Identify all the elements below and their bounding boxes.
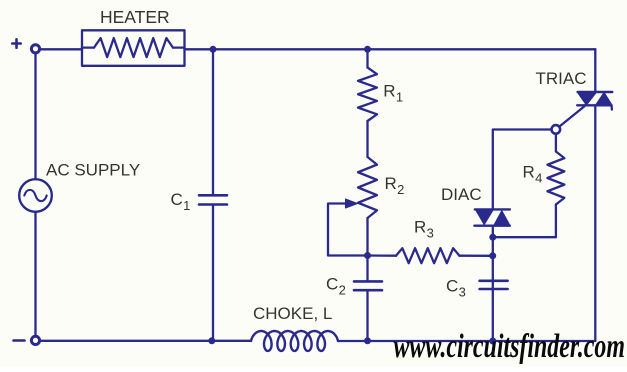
svg-text:TRIAC: TRIAC [536, 69, 587, 88]
svg-text:R: R [414, 218, 426, 237]
svg-text:2: 2 [339, 283, 346, 298]
svg-text:1: 1 [183, 198, 190, 213]
svg-text:R: R [383, 82, 395, 101]
svg-text:3: 3 [427, 226, 434, 241]
svg-text:AC SUPPLY: AC SUPPLY [46, 161, 140, 180]
svg-text:DIAC: DIAC [441, 185, 482, 204]
svg-text:3: 3 [459, 285, 466, 300]
svg-text:www.circuitsfinder.com: www.circuitsfinder.com [394, 328, 625, 365]
svg-text:C: C [171, 190, 183, 209]
svg-text:C: C [446, 277, 458, 296]
svg-text:4: 4 [535, 171, 542, 186]
svg-text:1: 1 [396, 90, 403, 105]
svg-text:C: C [326, 275, 338, 294]
svg-text:R: R [523, 163, 535, 182]
svg-text:R: R [385, 174, 397, 193]
svg-text:HEATER: HEATER [100, 7, 170, 27]
svg-text:2: 2 [397, 182, 404, 197]
svg-text:CHOKE, L: CHOKE, L [253, 304, 332, 323]
